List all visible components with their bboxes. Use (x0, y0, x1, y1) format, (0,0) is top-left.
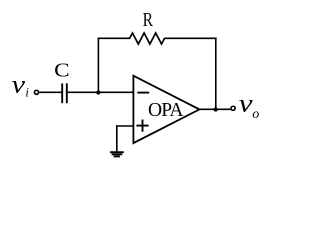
wire: feedback top right segment (164, 37, 216, 39)
resistor R (zigzag) (130, 33, 165, 44)
svg-text:R: R (143, 9, 154, 31)
op-amp inverting input minus sign (137, 92, 149, 94)
svg-text:i: i (25, 86, 29, 100)
input terminal (open circle) (34, 90, 38, 94)
wire: non-inverting input vertical drop to ground (116, 125, 118, 152)
wire: feedback top left segment (98, 37, 131, 39)
svg-text:C: C (54, 60, 70, 82)
node vi label (12, 72, 30, 100)
capacitor C (62, 83, 67, 103)
svg-text:v: v (12, 72, 26, 99)
junction dot at output node (214, 107, 218, 111)
wire: capacitor to op-amp inverting input (through node) (68, 91, 134, 93)
svg-text:o: o (252, 107, 259, 122)
wire: op-amp output to output terminal (199, 108, 231, 110)
op-amp non-inverting input plus sign (136, 120, 148, 132)
output terminal (open circle) (231, 106, 235, 110)
wire: input terminal to capacitor (39, 91, 61, 93)
op-amp U1 triangle (133, 76, 199, 143)
node vo label (239, 91, 259, 123)
wire: non-inverting input horizontal (116, 125, 134, 127)
ground symbol (110, 152, 124, 156)
svg-text:OPA: OPA (148, 100, 184, 121)
wire: feedback left vertical (97, 38, 99, 93)
junction dot at inverting input node (96, 90, 100, 94)
wire: feedback right vertical to output node (215, 38, 217, 110)
